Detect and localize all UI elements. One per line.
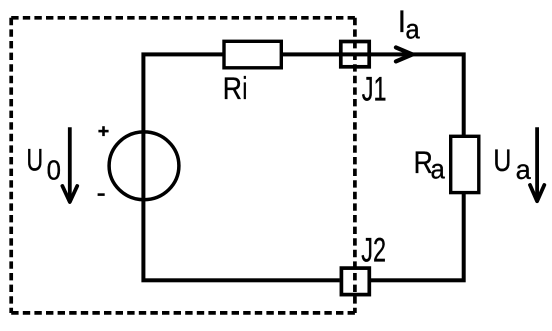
voltage source U0 circle xyxy=(109,132,179,200)
current arrow Ia xyxy=(396,47,413,61)
resistor Ra xyxy=(451,136,479,192)
junction J1 xyxy=(341,42,369,67)
plus sign xyxy=(98,126,108,136)
wire circuit loop xyxy=(143,54,463,280)
svg-text:U: U xyxy=(493,143,511,179)
svg-text:R: R xyxy=(223,72,242,107)
voltage arrow U0 xyxy=(62,127,77,202)
svg-text:J1: J1 xyxy=(362,70,387,109)
minus sign xyxy=(98,193,105,196)
junction J2 xyxy=(341,268,369,295)
svg-text:a: a xyxy=(405,14,419,45)
svg-text:0: 0 xyxy=(47,155,61,186)
svg-text:i: i xyxy=(242,70,247,106)
svg-text:J2: J2 xyxy=(361,231,386,270)
svg-text:a: a xyxy=(516,154,532,185)
svg-text:a: a xyxy=(431,154,445,185)
dashed feedback box xyxy=(11,18,355,313)
resistor Ri xyxy=(224,41,281,68)
voltage arrow Ua xyxy=(530,127,544,201)
svg-text:U: U xyxy=(26,142,43,177)
junction J2 white mask xyxy=(340,266,371,296)
